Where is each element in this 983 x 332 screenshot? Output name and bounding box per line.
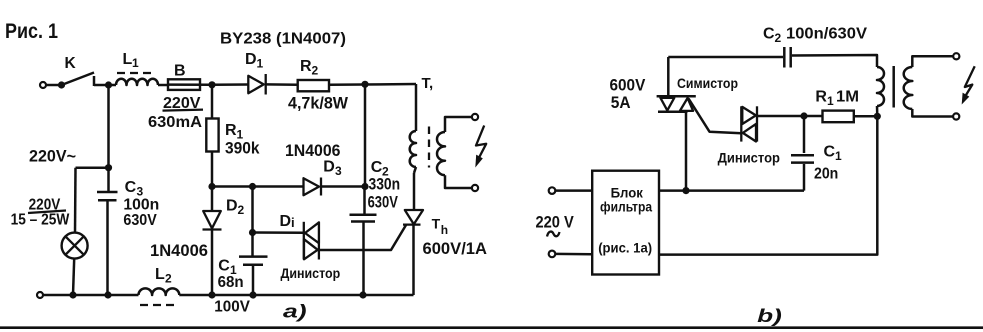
- svg-text:1N4006: 1N4006: [285, 141, 341, 160]
- svg-text:K: K: [65, 55, 77, 72]
- svg-text:630V: 630V: [368, 194, 398, 212]
- svg-text:Динистор: Динистор: [281, 265, 341, 281]
- svg-text:100n/630V: 100n/630V: [786, 26, 867, 43]
- svg-text:1N4006: 1N4006: [150, 241, 208, 260]
- svg-text:1M: 1M: [836, 89, 859, 106]
- svg-text:D: D: [226, 198, 238, 215]
- svg-text:T: T: [432, 216, 441, 232]
- svg-text:1: 1: [132, 56, 139, 70]
- svg-text:T,: T,: [422, 75, 434, 92]
- svg-text:C: C: [371, 159, 383, 176]
- svg-text:C: C: [824, 144, 836, 161]
- svg-text:C: C: [763, 26, 775, 43]
- svg-text:220V~: 220V~: [29, 148, 76, 166]
- svg-text:2: 2: [312, 64, 319, 78]
- svg-text:390k: 390k: [225, 139, 260, 158]
- svg-text:2: 2: [165, 272, 172, 286]
- svg-text:Рис. 1: Рис. 1: [5, 19, 58, 43]
- svg-text:L: L: [155, 266, 165, 283]
- svg-text:h: h: [441, 223, 448, 237]
- svg-text:Динистор: Динистор: [718, 150, 780, 166]
- svg-text:630V: 630V: [123, 212, 157, 229]
- svg-text:20n: 20n: [814, 166, 838, 183]
- svg-text:D: D: [245, 51, 257, 68]
- svg-text:1: 1: [827, 94, 834, 108]
- svg-text:3: 3: [335, 164, 342, 178]
- svg-text:1: 1: [257, 57, 264, 71]
- svg-text:68n: 68n: [218, 274, 244, 291]
- svg-text:C: C: [218, 258, 230, 275]
- svg-text:600V: 600V: [610, 77, 646, 95]
- svg-text:1: 1: [835, 149, 842, 163]
- svg-text:100n: 100n: [123, 197, 159, 214]
- svg-text:2: 2: [775, 31, 782, 45]
- svg-text:220 V: 220 V: [536, 214, 574, 232]
- svg-text:D: D: [280, 213, 292, 230]
- svg-text:i: i: [291, 215, 295, 230]
- svg-text:D: D: [323, 159, 335, 176]
- svg-text:B: B: [174, 63, 186, 80]
- svg-text:330n: 330n: [369, 176, 401, 194]
- svg-text:C: C: [125, 179, 137, 196]
- svg-text:Симистор: Симистор: [677, 75, 738, 91]
- svg-text:(рис. 1а): (рис. 1а): [598, 241, 652, 256]
- svg-text:600V/1A: 600V/1A: [423, 239, 488, 258]
- svg-text:L: L: [123, 51, 133, 68]
- svg-text:15 – 25W: 15 – 25W: [11, 212, 70, 229]
- svg-text:4,7k/8W: 4,7k/8W: [288, 95, 348, 113]
- svg-text:2: 2: [238, 203, 245, 217]
- svg-text:a): a): [283, 302, 307, 322]
- svg-text:5A: 5A: [611, 94, 631, 112]
- svg-text:b): b): [757, 306, 782, 326]
- svg-text:BY238 (1N4007): BY238 (1N4007): [220, 30, 346, 47]
- svg-text:630mA: 630mA: [148, 114, 202, 131]
- svg-text:100V: 100V: [214, 299, 250, 316]
- svg-text:R: R: [300, 58, 312, 75]
- svg-text:фильтра: фильтра: [600, 199, 652, 215]
- svg-text:R: R: [815, 89, 827, 106]
- svg-text:R: R: [225, 122, 237, 139]
